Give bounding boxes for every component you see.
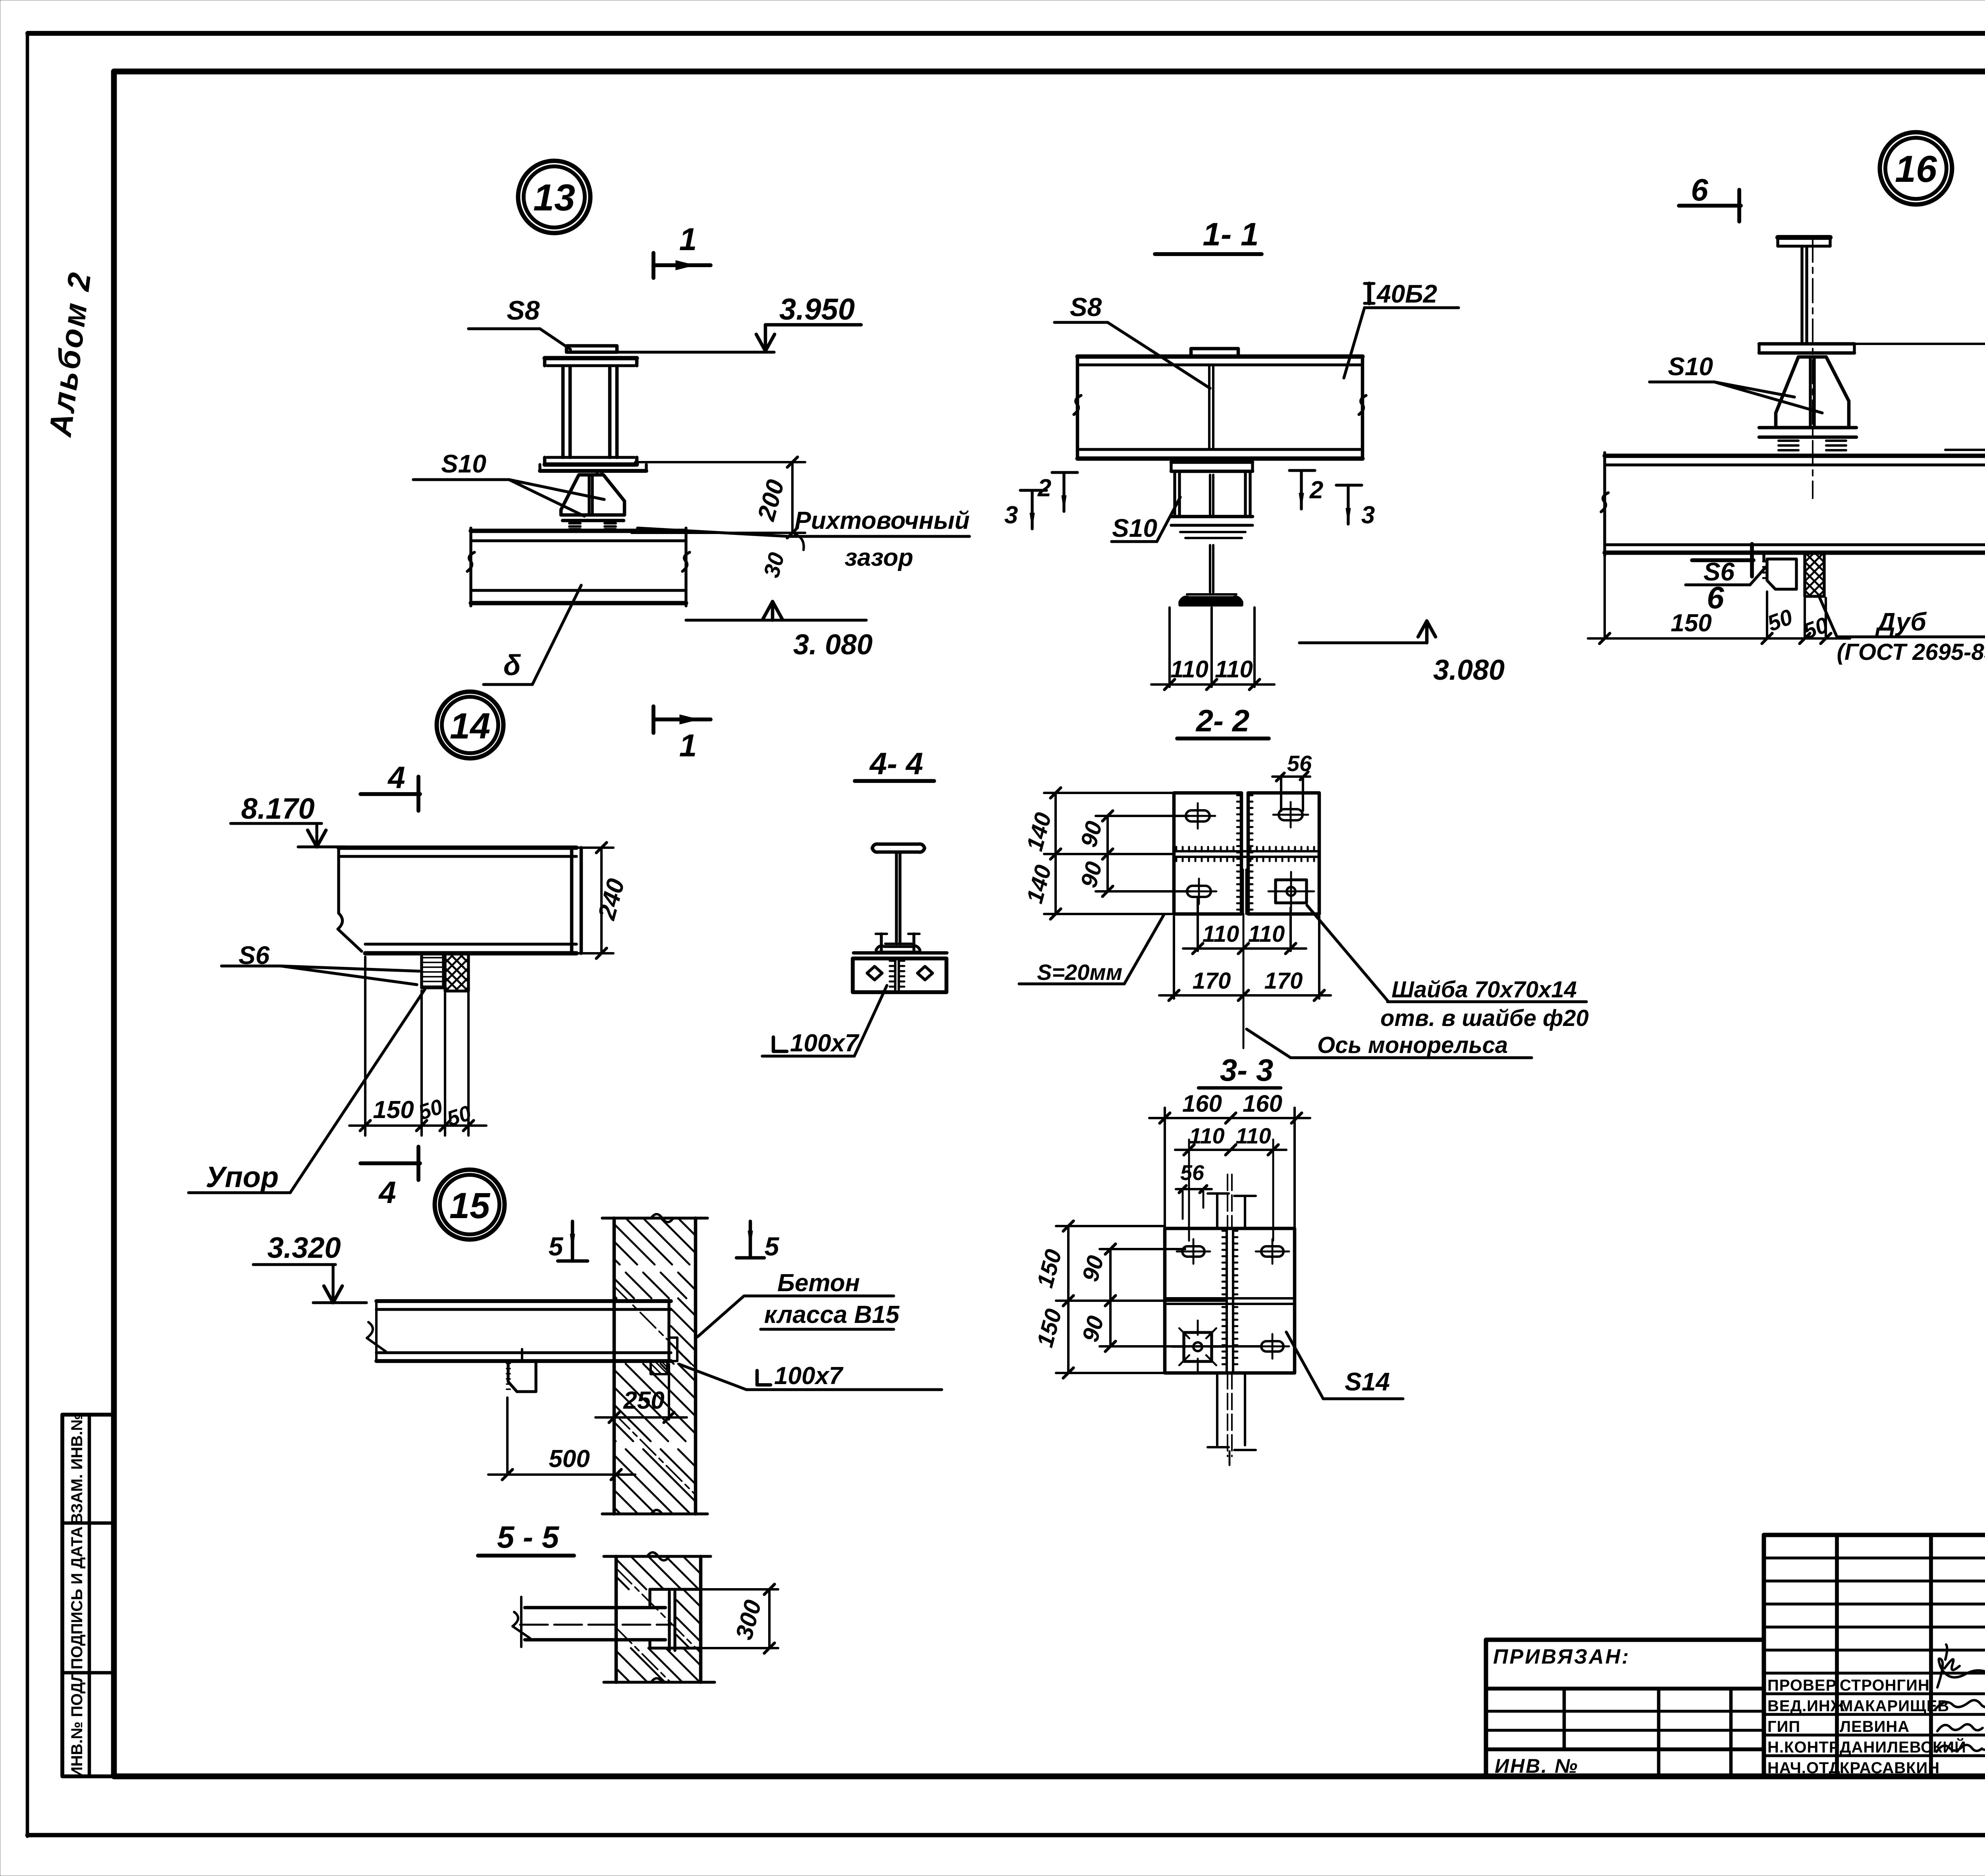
support bracket (15) (508, 1361, 536, 1392)
svg-text:110: 110 (1215, 656, 1253, 683)
svg-text:S6: S6 (1704, 557, 1735, 586)
svg-text:5 - 5: 5 - 5 (497, 1519, 560, 1554)
svg-text:1- 1: 1- 1 (1203, 216, 1258, 253)
dimension 300 (5-5) (701, 1588, 778, 1591)
beam (15) (376, 1299, 671, 1303)
dimension 110-110 (1-1) (1168, 607, 1171, 687)
svg-text:СТРОНГИН: СТРОНГИН (1840, 1677, 1930, 1694)
section mark 1 bottom (651, 706, 655, 733)
svg-text:13: 13 (533, 177, 575, 219)
svg-text:500: 500 (549, 1445, 590, 1473)
svg-text:2: 2 (1037, 474, 1051, 502)
svg-text:3.320: 3.320 (267, 1231, 341, 1264)
section mark 4 top (360, 792, 420, 796)
section mark 5 left (571, 1221, 574, 1261)
svg-text:Ось монорельса: Ось монорельса (1317, 1032, 1508, 1058)
support plate (16) (1759, 342, 1854, 346)
dimension 170-170 (2-2) (1173, 916, 1175, 999)
svg-text:3.950: 3.950 (779, 293, 855, 326)
svg-text:250: 250 (623, 1387, 664, 1414)
svg-text:Бетон: Бетон (777, 1269, 860, 1297)
svg-text:ВЕД.ИНЖ: ВЕД.ИНЖ (1767, 1697, 1845, 1715)
svg-text:S8: S8 (1070, 292, 1102, 322)
svg-text:ПОДПИСЬ И ДАТА: ПОДПИСЬ И ДАТА (68, 1526, 86, 1669)
svg-text:150: 150 (1671, 609, 1711, 637)
svg-text:110: 110 (1235, 1123, 1271, 1148)
vertical text Альбом 2 (42, 269, 98, 439)
hidden rail above plate (3-3) (1208, 1192, 1229, 1195)
hanger assembly (1-1) (1171, 461, 1253, 464)
beam cross-section (1-1) (1191, 349, 1238, 357)
elevation 3.080 (node13) (686, 619, 866, 621)
washer with rays (3-3) (1184, 1332, 1212, 1361)
svg-text:S10: S10 (441, 449, 486, 478)
dimension 200/30 (16 right) (1854, 343, 1985, 345)
svg-text:δ: δ (503, 650, 521, 681)
svg-text:ВЗАМ. ИНВ.№: ВЗАМ. ИНВ.№ (68, 1413, 86, 1524)
svg-text:15: 15 (449, 1186, 491, 1226)
svg-text:КРАСАВКИН: КРАСАВКИН (1840, 1759, 1940, 1777)
svg-text:160: 160 (1182, 1090, 1222, 1117)
plate (3-3) (1165, 1228, 1295, 1373)
dimension 500 (15) (506, 1398, 509, 1475)
oak block (14) (445, 953, 468, 991)
svg-text:ПРОВЕР.: ПРОВЕР. (1767, 1677, 1839, 1694)
svg-text:56: 56 (1180, 1161, 1204, 1185)
carrying beam (16) (1605, 454, 1985, 458)
shims (16) (1759, 426, 1856, 430)
svg-text:ЛЕВИНА: ЛЕВИНА (1840, 1718, 1910, 1735)
svg-text:4- 4: 4- 4 (869, 746, 923, 781)
lower angle in wall (15) (651, 1361, 667, 1374)
label I40B2 (1367, 283, 1371, 303)
svg-text:НАЧ.ОТД: НАЧ.ОТД (1767, 1759, 1840, 1777)
left dimensions 140/90 (2-2) (1044, 792, 1174, 794)
wedge (16) (1776, 357, 1849, 428)
diamond holes (4-4) (867, 966, 882, 980)
oak block (16) (1805, 553, 1824, 596)
wedge support (node13) (595, 471, 598, 475)
dimension 250 (15) (668, 1364, 670, 1419)
wall (5-5) (615, 1556, 618, 1682)
stiffener (1-1) (1208, 365, 1210, 449)
svg-text:5: 5 (765, 1232, 780, 1261)
svg-text:3: 3 (1361, 501, 1375, 529)
svg-text:1: 1 (679, 728, 697, 763)
svg-text:3- 3: 3- 3 (1220, 1053, 1273, 1087)
hidden rail below plate (3-3) (1216, 1373, 1218, 1445)
title block: ПРИВЯЗАН box (1486, 1640, 1764, 1776)
carrying beam (node13) (471, 529, 686, 533)
bolts (4-4) (880, 934, 883, 953)
monorail rail section (16) (1778, 235, 1830, 240)
svg-text:3: 3 (1004, 501, 1018, 529)
svg-text:3.080: 3.080 (1433, 654, 1505, 686)
shim plates (node13) (563, 519, 624, 523)
node 15 bubble (435, 1170, 505, 1240)
section mark 6 top (1679, 204, 1741, 208)
dimension 110-110 (2-2) (1197, 898, 1199, 951)
mid weld seam (2-2) (1174, 850, 1319, 852)
svg-text:Н.КОНТР: Н.КОНТР (1767, 1739, 1840, 1756)
left margin label boxes (62, 1415, 114, 1776)
svg-text:2: 2 (1309, 476, 1323, 504)
svg-text:зазор: зазор (845, 544, 913, 571)
dimension 150-50-50 (14) (364, 957, 366, 1136)
svg-text:S10: S10 (1112, 514, 1157, 542)
svg-text:Упор: Упор (206, 1161, 279, 1193)
svg-text:ГИП: ГИП (1767, 1718, 1800, 1735)
slotted holes (2-2) (1186, 810, 1210, 821)
center line (16) (1812, 238, 1813, 498)
svg-text:S10: S10 (1668, 352, 1713, 381)
svg-text:ПРИВЯЗАН:: ПРИВЯЗАН: (1493, 1645, 1630, 1668)
svg-text:100х7: 100х7 (790, 1030, 860, 1057)
end angle (15) (667, 1301, 670, 1361)
svg-text:2- 2: 2- 2 (1195, 703, 1249, 738)
svg-text:отв. в шайбе ф20: отв. в шайбе ф20 (1380, 1005, 1589, 1031)
washer with hole (2-2) (1276, 880, 1307, 903)
stop bracket S6 (16) (1767, 559, 1796, 589)
svg-text:4: 4 (378, 1175, 396, 1210)
svg-text:160: 160 (1243, 1090, 1282, 1117)
svg-text:ИНВ. №: ИНВ. № (1495, 1755, 1578, 1777)
svg-text:Дуб: Дуб (1875, 607, 1927, 636)
svg-text:100х7: 100х7 (774, 1362, 844, 1390)
node 13 bubble (518, 161, 590, 233)
section mark 5 right (749, 1221, 752, 1258)
signatures (1937, 1658, 1985, 1687)
svg-text:S14: S14 (1345, 1367, 1390, 1396)
svg-text:110: 110 (1170, 656, 1208, 683)
section mark 6 bottom (1692, 558, 1754, 562)
left dimensions 150/90 (3-3) (1056, 1225, 1165, 1227)
svg-text:110: 110 (1203, 921, 1239, 947)
dimension 200/30 (node13) (635, 461, 805, 463)
svg-text:170: 170 (1193, 968, 1231, 994)
node 16 bubble (1880, 132, 1952, 204)
svg-text:4: 4 (387, 760, 405, 795)
svg-text:110: 110 (1248, 921, 1285, 947)
section mark 4 bottom (360, 1161, 420, 1165)
svg-text:16: 16 (1895, 148, 1937, 190)
svg-text:14: 14 (450, 706, 490, 746)
stop block (14) (422, 953, 443, 988)
title block: signature table (1764, 1535, 1985, 1776)
svg-text:класса В15: класса В15 (764, 1301, 900, 1328)
section mark 1 top (651, 253, 655, 278)
svg-text:5: 5 (549, 1232, 564, 1261)
svg-text:ИНВ.№ ПОДЛ: ИНВ.№ ПОДЛ (68, 1671, 86, 1778)
dimension 240 (576, 846, 613, 849)
svg-text:МАКАРИЩЕВ: МАКАРИЩЕВ (1840, 1697, 1949, 1715)
dimension 150-50-50 (16) (1603, 557, 1606, 638)
brick wall (15) (613, 1218, 616, 1514)
monorail I-beam pair (node 13) (567, 346, 617, 352)
svg-text:150: 150 (373, 1096, 414, 1124)
label angle 100x7 (15) (755, 1371, 759, 1385)
cantilever beam (14) (339, 846, 576, 850)
svg-text:3. 080: 3. 080 (793, 629, 873, 661)
end plate (5-5) (668, 1592, 671, 1650)
svg-text:Рихтовочный: Рихтовочный (795, 507, 970, 534)
elevation 3.080 (1-1) (1299, 641, 1425, 644)
svg-text:170: 170 (1264, 968, 1303, 994)
clamp plate and bracket (4-4) (854, 951, 947, 955)
rail section (4-4) (872, 844, 925, 852)
svg-text:1: 1 (679, 222, 697, 257)
label angle 100x7 (4-4) (772, 1037, 775, 1051)
label axis of monorail (1243, 914, 1245, 1043)
plate halves (2-2) (1174, 793, 1241, 914)
svg-text:S=20мм: S=20мм (1037, 960, 1122, 985)
svg-text:Шайба 70х70х14: Шайба 70х70х14 (1391, 977, 1577, 1003)
center gap welds (2-2) (1237, 794, 1241, 796)
welds (3-3) (1222, 1230, 1227, 1232)
outer sheet border (28, 31, 1985, 36)
svg-text:6: 6 (1691, 172, 1708, 207)
svg-text:8.170: 8.170 (241, 792, 314, 825)
svg-text:(ГОСТ 2695-83): (ГОСТ 2695-83) (1837, 639, 1985, 665)
svg-text:40Б2: 40Б2 (1376, 280, 1437, 308)
beam plan (5-5) (525, 1606, 665, 1610)
pocket niche (5-5) (650, 1588, 701, 1591)
slots (3-3) (1182, 1246, 1204, 1257)
svg-text:S8: S8 (507, 295, 540, 326)
rail below (1-1) (1209, 545, 1211, 592)
web with welds (4-4) (894, 958, 896, 989)
node 14 bubble (437, 692, 503, 758)
